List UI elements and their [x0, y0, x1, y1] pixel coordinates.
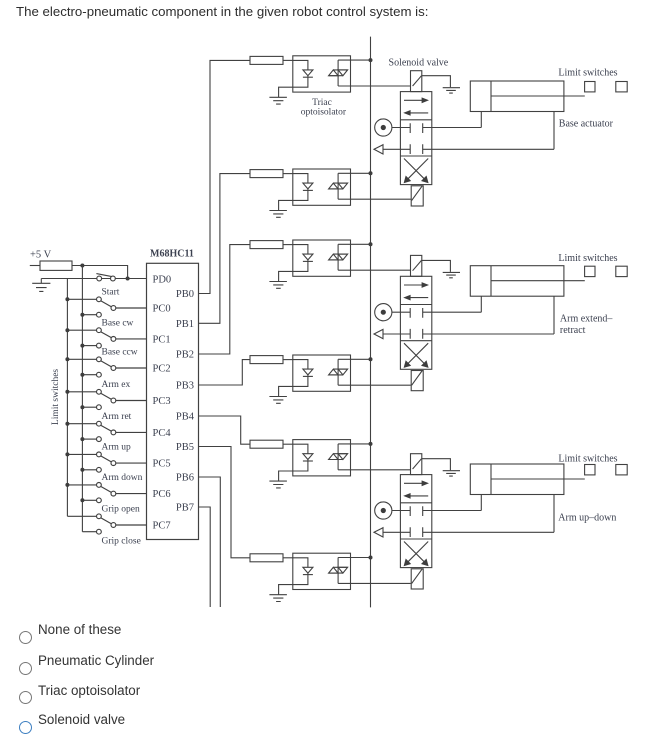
svg-text:Arm up: Arm up — [102, 443, 132, 453]
svg-text:+5 V: +5 V — [30, 250, 52, 261]
svg-text:Start: Start — [102, 288, 120, 298]
svg-text:Base ccw: Base ccw — [102, 348, 138, 358]
svg-text:PC3: PC3 — [153, 396, 171, 407]
svg-text:Limit switches: Limit switches — [558, 453, 617, 464]
svg-text:PC2: PC2 — [153, 364, 171, 375]
svg-text:Solenoid valve: Solenoid valve — [389, 57, 449, 68]
svg-text:PC6: PC6 — [153, 489, 171, 500]
svg-text:PC4: PC4 — [153, 428, 172, 439]
svg-text:M68HC11: M68HC11 — [150, 249, 194, 260]
svg-text:PB0: PB0 — [176, 289, 194, 300]
svg-text:Limit switches: Limit switches — [51, 369, 61, 426]
svg-text:PD0: PD0 — [153, 275, 172, 286]
svg-text:PB5: PB5 — [176, 442, 194, 453]
svg-text:Grip open: Grip open — [102, 505, 141, 515]
svg-text:Grip close: Grip close — [102, 537, 141, 547]
svg-text:PC5: PC5 — [153, 459, 171, 470]
svg-text:PB2: PB2 — [176, 350, 194, 361]
svg-text:PB6: PB6 — [176, 473, 194, 484]
svg-text:Limit switches: Limit switches — [558, 253, 617, 264]
svg-text:PB1: PB1 — [176, 319, 194, 330]
svg-text:Limit switches: Limit switches — [558, 68, 617, 79]
svg-text:optoisolator: optoisolator — [301, 107, 347, 117]
svg-text:Arm up–down: Arm up–down — [558, 513, 616, 524]
svg-text:PC0: PC0 — [153, 304, 171, 315]
svg-text:PB7: PB7 — [176, 503, 194, 514]
svg-text:PC1: PC1 — [153, 334, 171, 345]
svg-text:Base actuator: Base actuator — [559, 118, 614, 129]
svg-text:Arm down: Arm down — [102, 473, 143, 483]
svg-text:PB4: PB4 — [176, 412, 195, 423]
svg-text:Base cw: Base cw — [102, 318, 134, 328]
svg-text:Arm ret: Arm ret — [102, 412, 132, 422]
svg-text:PB3: PB3 — [176, 381, 194, 392]
svg-text:retract: retract — [560, 325, 586, 336]
svg-text:Arm ex: Arm ex — [102, 380, 131, 390]
svg-text:PC7: PC7 — [153, 521, 171, 532]
svg-text:Arm extend–: Arm extend– — [560, 314, 613, 325]
